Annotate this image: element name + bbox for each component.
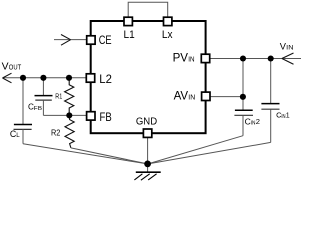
svg-text:IN: IN bbox=[188, 55, 194, 64]
svg-text:CE: CE bbox=[99, 35, 112, 47]
pin FB bbox=[87, 112, 95, 120]
junction node CL on VOUT rail bbox=[20, 75, 26, 81]
resistor R1 bbox=[65, 78, 74, 116]
label VIN bbox=[280, 42, 294, 52]
capacitor CL bbox=[14, 125, 33, 144]
junction node CFB on VOUT rail bbox=[40, 75, 46, 81]
junction node R1 on VOUT rail bbox=[66, 75, 72, 81]
wire vertical VIN rail to CIN1 bbox=[270, 59, 272, 104]
svg-text:OUT: OUT bbox=[9, 62, 22, 71]
label VOUT bbox=[2, 61, 22, 72]
svg-text:IN: IN bbox=[286, 45, 294, 52]
svg-text:GND: GND bbox=[136, 116, 157, 127]
arrow VOUT bbox=[3, 73, 12, 83]
junction node CIN2 on PVIN rail bbox=[240, 55, 246, 61]
ground symbol bbox=[134, 172, 160, 180]
pin AVIN bbox=[202, 92, 210, 100]
wire CE input bbox=[54, 39, 86, 41]
svg-text:L: L bbox=[16, 132, 20, 139]
resistor R2 bbox=[65, 115, 74, 147]
svg-text:Lx: Lx bbox=[162, 29, 173, 41]
svg-text:AV: AV bbox=[174, 90, 189, 102]
junction node AVIN bbox=[240, 94, 246, 100]
capacitor CFB bbox=[35, 96, 53, 116]
svg-text:FB: FB bbox=[34, 106, 42, 112]
pin GND bbox=[143, 129, 151, 137]
wire CIN2 to ground bbox=[148, 136, 243, 164]
label CIN1 bbox=[276, 111, 290, 120]
pin CE bbox=[87, 36, 95, 44]
wire PVIN rail bbox=[210, 58, 301, 60]
pin Lx bbox=[164, 17, 172, 25]
wire AVIN bbox=[211, 96, 243, 98]
svg-text:L1: L1 bbox=[124, 29, 135, 41]
IC body U1 bbox=[91, 21, 206, 133]
svg-text:FB: FB bbox=[100, 112, 112, 124]
wire VOUT rail bbox=[3, 77, 87, 79]
svg-text:2: 2 bbox=[256, 117, 260, 126]
label CL bbox=[10, 129, 20, 139]
svg-text:V: V bbox=[2, 61, 9, 72]
wire vertical PVIN to AVIN to CIN2 bbox=[242, 59, 244, 111]
pin L1 bbox=[124, 17, 132, 25]
pin L2 bbox=[86, 74, 94, 82]
wire R2 to ground bbox=[71, 148, 148, 164]
junction node FB divider bbox=[66, 112, 72, 118]
svg-text:PV: PV bbox=[173, 53, 189, 65]
pin PVIN bbox=[201, 54, 209, 62]
label CFB bbox=[28, 103, 42, 112]
arrow CE input bbox=[61, 35, 71, 46]
wire CL lead from VOUT rail bbox=[22, 78, 24, 124]
wire FB rail bbox=[43, 114, 86, 116]
wire inductor loop L1 to Lx bbox=[128, 2, 168, 16]
arrow VIN bbox=[282, 53, 294, 64]
svg-text:R2: R2 bbox=[51, 128, 61, 138]
wire CFB lead from VOUT rail bbox=[42, 78, 44, 95]
svg-text:R1: R1 bbox=[55, 91, 62, 100]
svg-text:IN: IN bbox=[188, 93, 195, 102]
svg-text:1: 1 bbox=[286, 113, 290, 120]
svg-text:L2: L2 bbox=[99, 74, 112, 86]
junction node CIN1 on PVIN rail bbox=[268, 55, 274, 61]
capacitor CIN1 bbox=[261, 104, 279, 143]
label AVIN bbox=[174, 90, 196, 102]
wire CIN1 to ground bbox=[148, 142, 271, 164]
capacitor CIN2 bbox=[234, 110, 253, 135]
wire CL to ground bbox=[23, 144, 148, 164]
wire GND pin to ground node bbox=[147, 138, 149, 172]
label CIN2 bbox=[245, 116, 260, 126]
ground node bbox=[144, 161, 151, 168]
label PVIN bbox=[173, 53, 195, 65]
